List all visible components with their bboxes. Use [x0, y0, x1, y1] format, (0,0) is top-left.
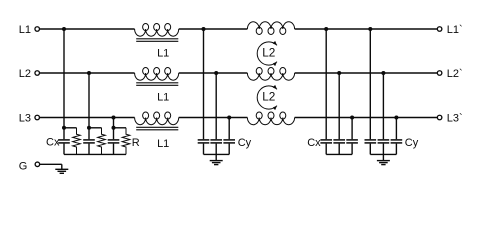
svg-text:G: G — [19, 161, 28, 173]
node Cx2 dot — [87, 126, 91, 130]
node L3 dot — [112, 116, 116, 120]
node right Cx L1 dot — [324, 27, 328, 31]
svg-text:L3: L3 — [19, 113, 31, 125]
wire L3 c — [295, 117, 438, 119]
inductor L1 phase1 core — [136, 38, 178, 40]
terminal G — [35, 162, 40, 167]
inductor L1 phase2 coil — [135, 73, 179, 80]
capacitor Cy'3 — [395, 138, 397, 140]
terminal L1 — [35, 27, 40, 32]
node mid L2 dot — [214, 71, 218, 75]
node right Cx L2 dot — [337, 71, 341, 75]
capacitor Cx3 — [113, 128, 115, 139]
wire drop Cx2 — [88, 73, 90, 128]
terminal L3 — [35, 115, 40, 120]
wire Cx' rail — [326, 153, 352, 155]
node right Cy L3 dot — [394, 116, 398, 120]
ground G — [61, 164, 63, 169]
inductor L1 phase2 core — [136, 82, 178, 84]
capacitor Cx1 — [63, 128, 65, 139]
wire drop Cy'1 — [369, 29, 371, 139]
wire drop Cy2 — [215, 73, 217, 139]
svg-text:L3`: L3` — [447, 113, 463, 125]
node Cx3 dot — [112, 126, 116, 130]
ground Cy mid — [215, 154, 217, 160]
svg-text:L2: L2 — [19, 68, 31, 80]
wire drop Cy1 — [203, 29, 205, 139]
terminal L2 — [35, 71, 40, 76]
wire L1 c — [295, 28, 438, 30]
node L2 dot — [87, 71, 91, 75]
node right Cy L1 dot — [368, 27, 372, 31]
capacitor Cx2 — [88, 128, 90, 139]
capacitor Cx'1 — [325, 138, 327, 140]
resistor R2 — [98, 128, 106, 155]
wire R1 top — [64, 127, 77, 129]
node mid L3 dot — [227, 116, 231, 120]
terminal L1' — [437, 27, 442, 32]
svg-text:L1`: L1` — [447, 24, 463, 36]
svg-text:R: R — [132, 137, 140, 149]
wire L3 a — [40, 117, 135, 119]
wire Cx rail — [64, 153, 126, 155]
svg-text:L1: L1 — [157, 47, 169, 59]
node right Cy L2 dot — [381, 71, 385, 75]
wire drop Cx'3 — [351, 118, 353, 140]
capacitor Cy1 — [203, 138, 205, 140]
terminal L3' — [437, 115, 442, 120]
node L1 dot — [62, 27, 66, 31]
inductor L2 winding3 — [247, 118, 294, 125]
wire L1 b — [179, 28, 248, 30]
ground Cy right — [382, 154, 384, 160]
capacitor Cx'3 — [351, 138, 353, 140]
inductor L2 winding2 — [247, 73, 294, 80]
svg-text:L1: L1 — [157, 91, 169, 103]
node mid L1 dot — [202, 27, 206, 31]
wire L2 b — [179, 72, 248, 74]
capacitor Cx'2 — [338, 138, 340, 140]
wire Cy rail — [204, 153, 230, 155]
inductor L2 winding1 — [247, 22, 294, 29]
svg-text:L2: L2 — [262, 89, 275, 103]
wire R3 top — [114, 127, 127, 129]
svg-text:L2: L2 — [262, 45, 275, 59]
wire R2 top — [89, 127, 102, 129]
svg-text:L2`: L2` — [447, 68, 463, 80]
capacitor Cy'1 — [369, 138, 371, 140]
wire L3 b — [179, 117, 248, 119]
wire L2 a — [40, 72, 135, 74]
capacitor Cy3 — [228, 138, 230, 140]
svg-text:Cx: Cx — [307, 137, 321, 149]
capacitor Cy2 — [215, 138, 217, 140]
wire L2 c — [295, 72, 438, 74]
coupling arrow L2 a — [257, 42, 277, 65]
inductor L1 phase3 coil — [135, 118, 179, 125]
wire drop Cy'3 — [395, 118, 397, 140]
wire Cy' rail — [370, 153, 396, 155]
wire drop Cy'2 — [382, 73, 384, 139]
wire drop Cy3 — [228, 118, 230, 140]
terminal L2' — [437, 71, 442, 76]
wire drop Cx3 — [113, 118, 115, 128]
inductor L1 phase1 coil — [135, 29, 179, 36]
coupling arrow L2 b — [257, 86, 277, 109]
capacitor Cy'2 — [382, 138, 384, 140]
inductor L1 phase3 core — [136, 126, 178, 128]
svg-text:Cy: Cy — [238, 137, 252, 149]
wire drop Cx'2 — [338, 73, 340, 139]
resistor R1 — [73, 128, 81, 155]
wire G — [40, 163, 62, 165]
resistor R3 — [122, 128, 130, 155]
node Cx1 dot — [62, 126, 66, 130]
svg-text:L1: L1 — [19, 24, 31, 36]
wire drop Cx1 — [63, 29, 65, 128]
node right Cx L3 dot — [350, 116, 354, 120]
svg-text:L1: L1 — [157, 138, 169, 150]
wire L1 a — [40, 28, 135, 30]
svg-text:Cy: Cy — [405, 137, 419, 149]
svg-text:Cx: Cx — [46, 137, 60, 149]
wire drop Cx'1 — [325, 29, 327, 139]
